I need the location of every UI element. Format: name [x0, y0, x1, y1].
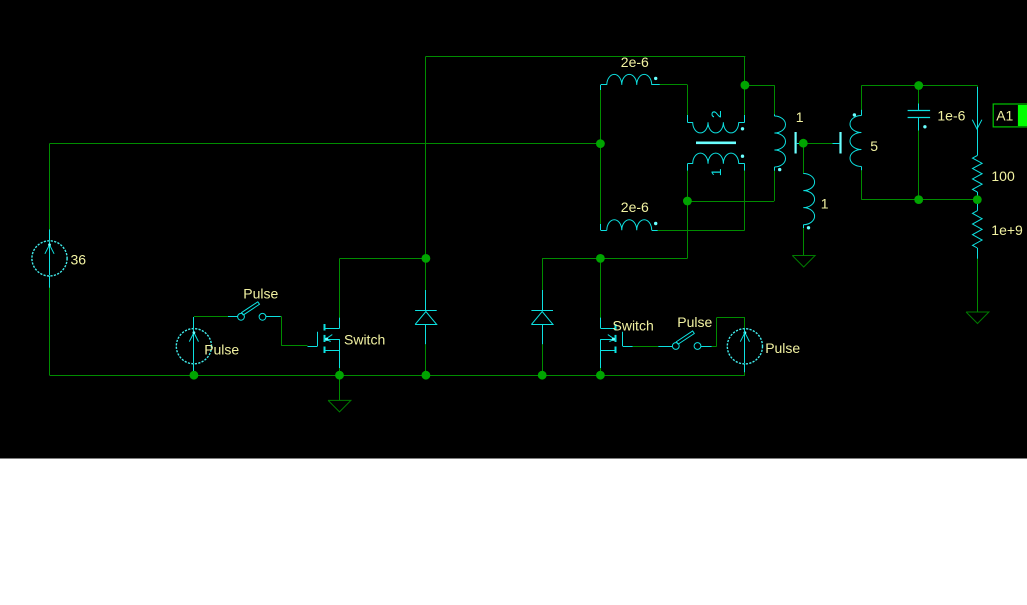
svg-text:Pulse: Pulse [677, 314, 712, 330]
svg-text:1: 1 [708, 168, 724, 176]
svg-text:Switch: Switch [344, 331, 385, 347]
svg-text:A1: A1 [996, 107, 1013, 123]
svg-text:1e-6: 1e-6 [937, 107, 965, 123]
svg-text:Pulse: Pulse [243, 286, 278, 302]
svg-text:Pulse: Pulse [765, 340, 800, 356]
svg-text:2: 2 [708, 110, 724, 118]
svg-text:5: 5 [870, 138, 878, 154]
svg-text:2e-6: 2e-6 [621, 54, 649, 70]
svg-text:100: 100 [991, 168, 1015, 184]
svg-text:36: 36 [71, 251, 87, 267]
svg-text:2e-6: 2e-6 [621, 199, 649, 215]
svg-text:Switch: Switch [613, 317, 654, 333]
svg-text:1e+9: 1e+9 [991, 222, 1023, 238]
svg-text:Pulse: Pulse [204, 342, 239, 358]
svg-text:1: 1 [796, 109, 804, 125]
svg-text:1: 1 [821, 195, 829, 211]
